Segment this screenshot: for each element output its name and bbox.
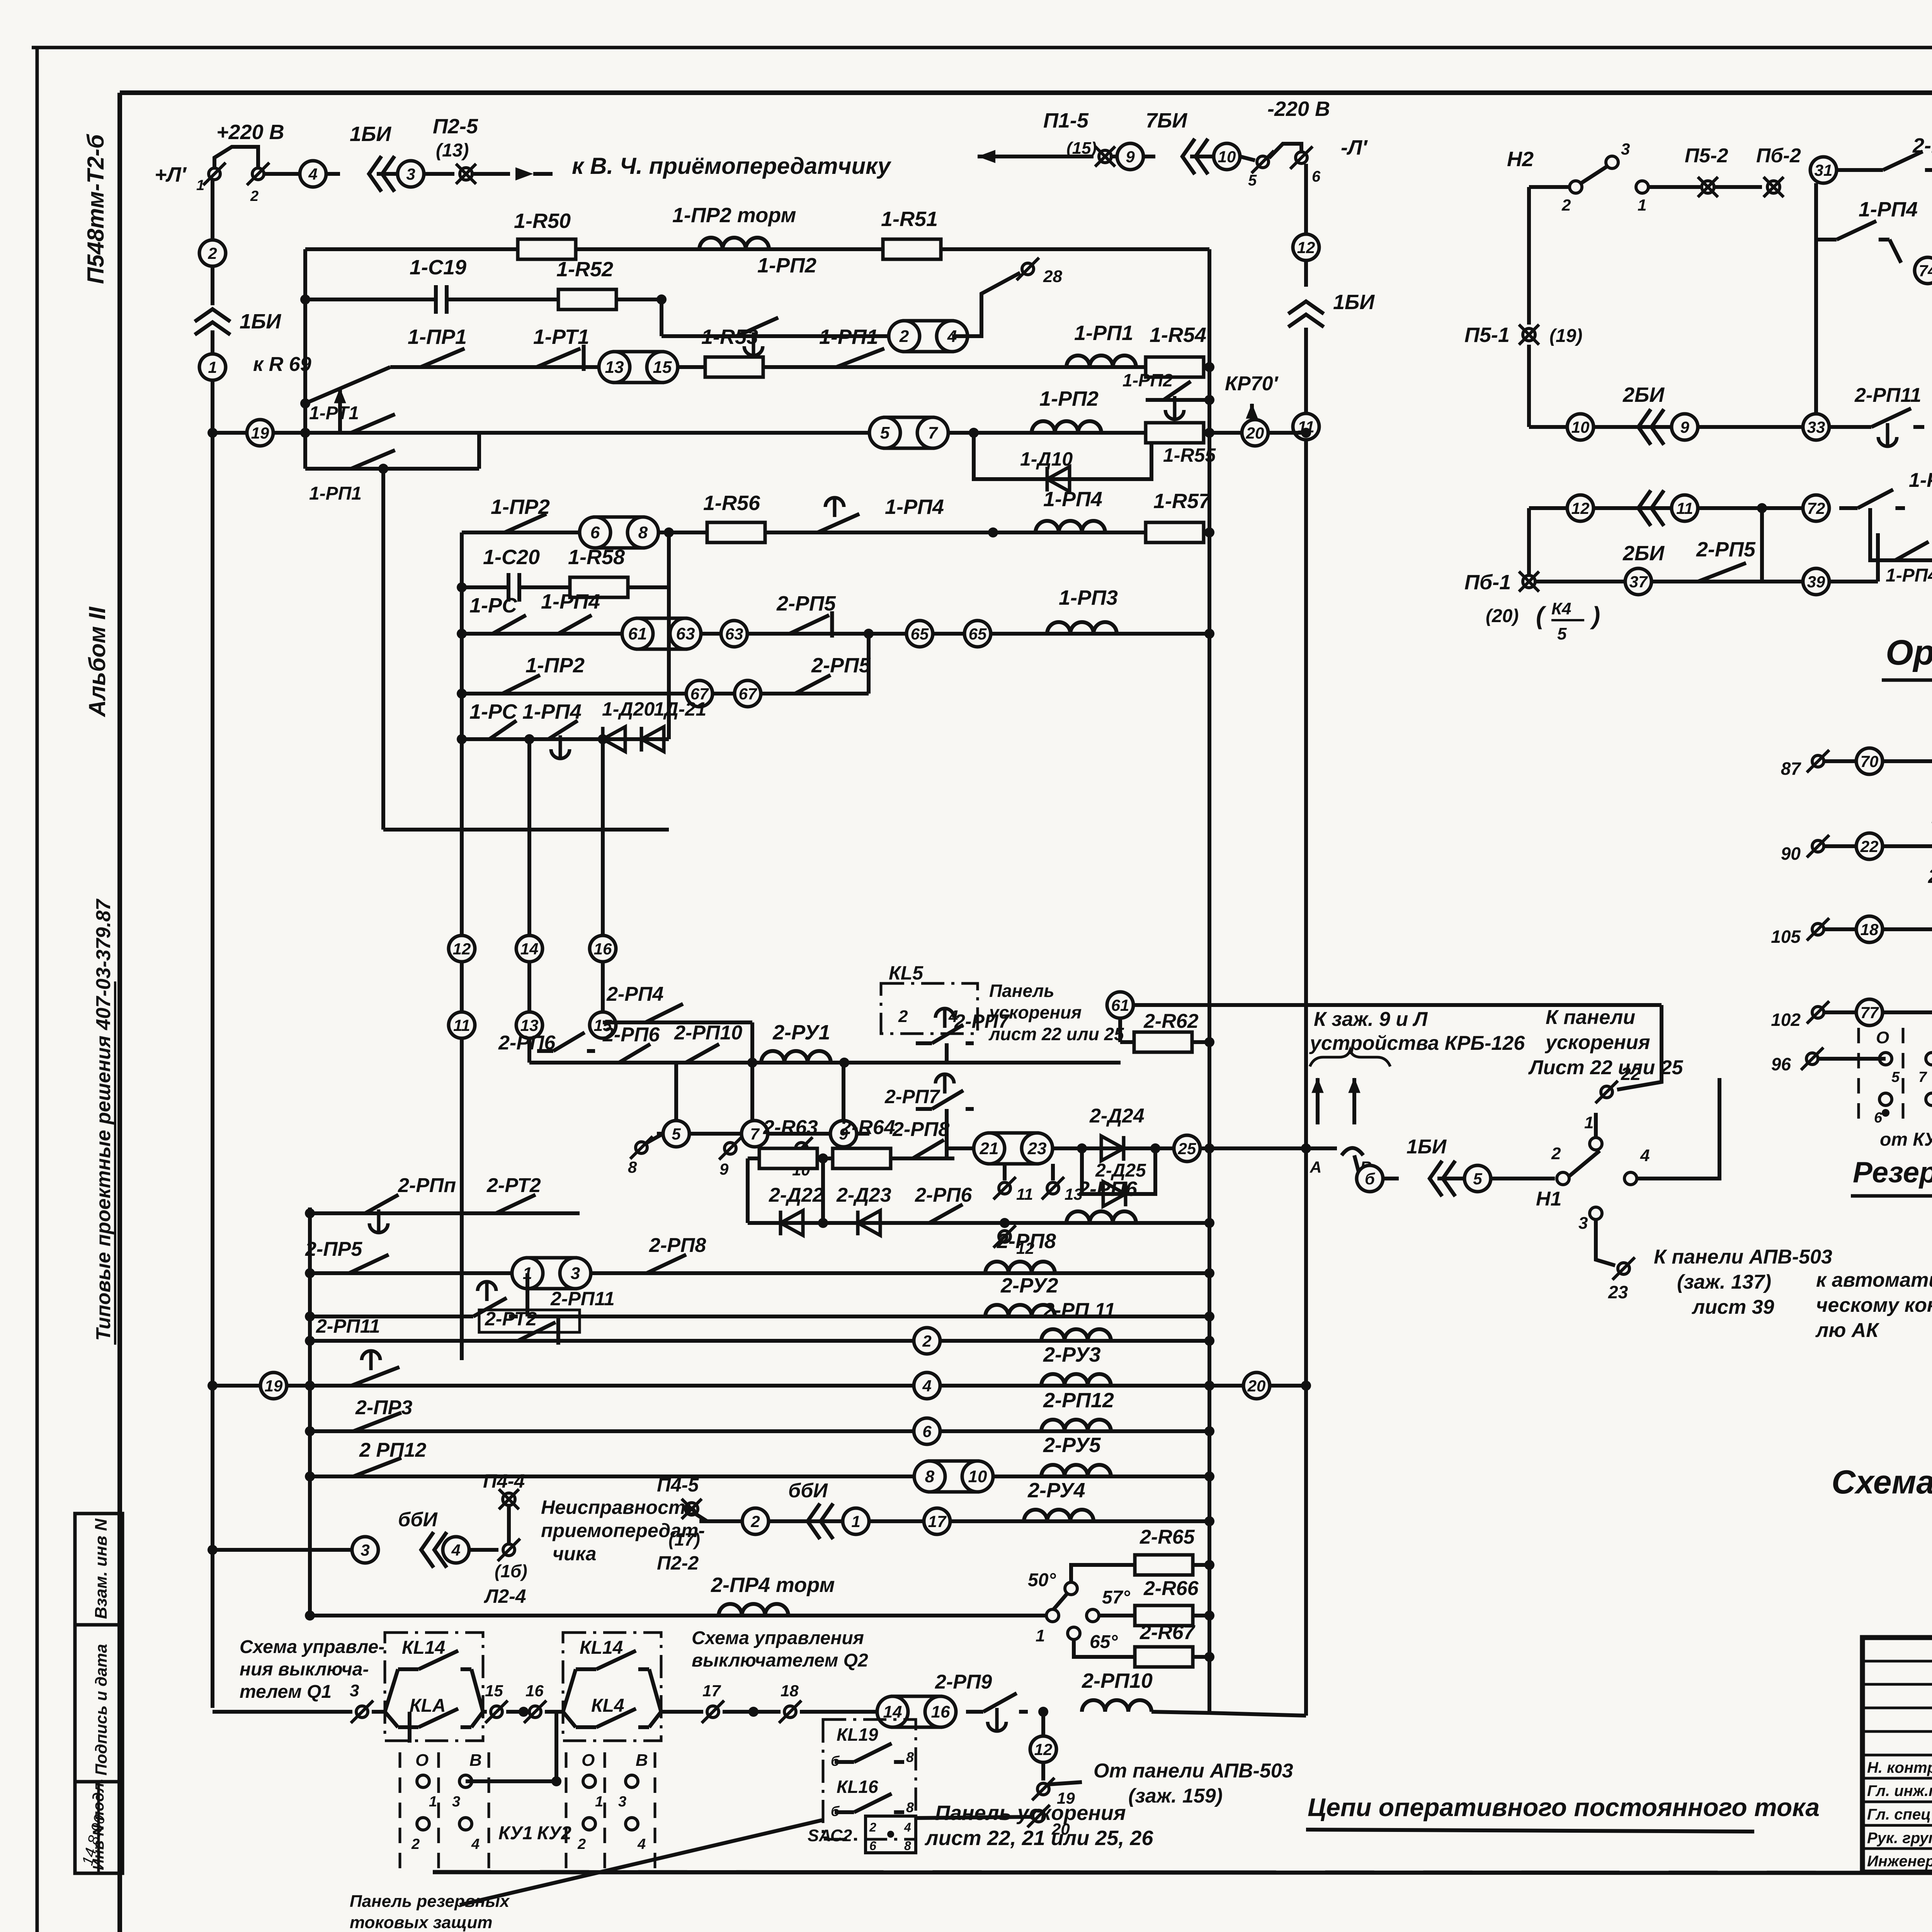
row diodes Д22 Д23 2-РП6 (748, 1221, 1209, 1225)
circles 6 8 pill (595, 517, 643, 548)
svg-text:КУ1: КУ1 (498, 1823, 533, 1844)
circles 65 65 (906, 621, 933, 647)
svg-text:2-Д24: 2-Д24 (1089, 1105, 1145, 1127)
svg-text:4: 4 (451, 1541, 460, 1559)
row 2-РП5 bottom wire (1536, 580, 1592, 583)
svg-text:лист 22 или 25: лист 22 или 25 (988, 1024, 1124, 1044)
circles 13 15 pill (614, 352, 662, 383)
capacitor 1-C20 (507, 573, 521, 602)
svg-text:от КУ1: от КУ1 (1880, 1129, 1932, 1150)
svg-text:22: 22 (1860, 837, 1879, 855)
svg-text:1-РП4: 1-РП4 (1886, 565, 1932, 586)
selector common 1 (1046, 1609, 1059, 1622)
contact 2-РП10 (668, 1061, 686, 1065)
row terminals 5 7 9 (657, 1132, 869, 1136)
svg-text:П2-5: П2-5 (433, 115, 478, 138)
resistor 1-R54 (1146, 357, 1204, 377)
circle 72 (1803, 495, 1829, 521)
chevron 7БИ (1143, 155, 1155, 158)
circle 20 (1242, 420, 1268, 446)
svg-text:12: 12 (1034, 1740, 1053, 1759)
svg-text:28: 28 (1043, 267, 1062, 286)
contact 2-РП11 anchor on row 19 (327, 1384, 351, 1388)
svg-text:Схема выполнена на листах 1÷: Схема выполнена на листах 1÷3 (1832, 1464, 1932, 1501)
diode 2-Д25 bypass (1082, 1148, 1155, 1194)
contact 1-РС row (475, 737, 489, 741)
circles 1 3 pill (527, 1258, 575, 1289)
row 67 wire (462, 692, 869, 696)
svg-text:устройства КРБ-126: устройства КРБ-126 (1309, 1032, 1525, 1054)
svg-text:2БИ: 2БИ (1622, 383, 1665, 406)
terminal 18 (784, 1706, 796, 1718)
svg-text:8: 8 (925, 1467, 935, 1486)
svg-text:2-РУ3: 2-РУ3 (1043, 1343, 1101, 1366)
svg-text:Неисправность: Неисправность (541, 1497, 697, 1518)
svg-text:К панели АПВ-503: К панели АПВ-503 (1654, 1246, 1832, 1268)
svg-text:Цепи оперативного постоянного: Цепи оперативного постоянного тока (1308, 1793, 1820, 1821)
svg-text:12: 12 (453, 940, 471, 958)
chevron 1БИ on bus E (1288, 301, 1324, 314)
svg-text:Инженер: Инженер (1867, 1853, 1932, 1870)
resistor 1-R51 (883, 239, 941, 259)
row 2БИ upper wire (1529, 425, 1803, 429)
svg-text:1-РС: 1-РС (469, 594, 517, 617)
circle 19 on row 19 (207, 428, 218, 438)
svg-text:6: 6 (869, 1839, 876, 1853)
arrow left -220V row (978, 150, 995, 163)
svg-text:(20): (20) (1486, 606, 1519, 626)
svg-text:1-Д10: 1-Д10 (1020, 448, 1073, 470)
svg-text:Панель: Панель (989, 981, 1054, 1001)
coil 2-РУ3 (1041, 1374, 1111, 1386)
svg-text:2-РП11: 2-РП11 (316, 1315, 380, 1337)
svg-text:2: 2 (411, 1836, 420, 1852)
chevron 2БИ lower (1638, 490, 1651, 526)
svg-text:63: 63 (676, 624, 695, 643)
contact 1-ПР2 (483, 531, 505, 534)
circle 17 (924, 1508, 950, 1534)
svg-text:2-ПР5: 2-ПР5 (305, 1238, 362, 1260)
svg-text:2-РП5: 2-РП5 (776, 592, 836, 615)
svg-text:1БИ: 1БИ (240, 310, 281, 333)
svg-text:1-РП4: 1-РП4 (1909, 469, 1932, 492)
svg-text:1-РП4: 1-РП4 (522, 700, 582, 723)
rail 802 (308, 1207, 312, 1611)
svg-text:8: 8 (628, 1158, 637, 1176)
svg-text:1: 1 (429, 1794, 437, 1810)
circle 2 row (914, 1328, 940, 1354)
bracket text К заж 9 и Л устройства КРБ-126 (1310, 1050, 1390, 1066)
KL5 dash-dot box (881, 983, 978, 1034)
svg-text:4: 4 (948, 1007, 958, 1026)
circles 5 7 pill (885, 417, 933, 448)
svg-text:От панели АПВ-503: От панели АПВ-503 (1094, 1760, 1293, 1782)
row 19-2 long wire (213, 1384, 1306, 1388)
bus A vertical (211, 180, 214, 240)
terminal 2 (252, 168, 264, 180)
svg-text:16: 16 (526, 1682, 544, 1700)
svg-text:2-R62: 2-R62 (1143, 1010, 1199, 1032)
svg-text:2-R63: 2-R63 (763, 1116, 818, 1139)
coil 2-ПР4 торм (719, 1604, 788, 1616)
svg-text:Л2-4: Л2-4 (484, 1585, 526, 1607)
svg-text:-Л′: -Л′ (1341, 136, 1368, 159)
svg-text:1-РП4: 1-РП4 (541, 590, 600, 613)
row 25 wire (947, 1146, 1306, 1150)
contact 1-РП2 with anchor (715, 334, 736, 338)
terminal 17 (707, 1706, 719, 1718)
outer border top line (32, 46, 1932, 49)
svg-text:13: 13 (605, 358, 624, 377)
coil 1-РП2 (1032, 421, 1101, 433)
coil 1-РП3 (1047, 622, 1117, 634)
svg-text:О: О (582, 1751, 595, 1770)
circle 1 on bus A (199, 354, 226, 380)
row 2-ПР4 торм wire (310, 1614, 1046, 1617)
contact 2-РП9 (1883, 927, 1905, 931)
row 2-РТ2 box stub and 2-РП11 coil row (310, 1339, 1209, 1343)
circle 33 (1803, 414, 1829, 440)
terminal П1-5 (1099, 150, 1111, 163)
svg-text:1: 1 (1584, 1113, 1594, 1132)
resistor 2-R67 branch (1074, 1640, 1135, 1657)
svg-text:3: 3 (571, 1264, 580, 1283)
resistor 1-R58 (570, 577, 628, 597)
svg-text:ния выключа-: ния выключа- (240, 1659, 369, 1680)
svg-text:1-РТ1: 1-РТ1 (533, 325, 589, 349)
svg-text:2-R66: 2-R66 (1143, 1577, 1199, 1600)
svg-text:1-ПР2: 1-ПР2 (491, 495, 550, 519)
inner frame left line (117, 93, 122, 1932)
contact 1-РТ1 row19 (328, 431, 351, 435)
circle 18 (1856, 916, 1883, 942)
svg-text:20: 20 (1247, 1377, 1266, 1395)
svg-text:14: 14 (520, 940, 539, 958)
wire to terminal 28 (952, 273, 1020, 336)
svg-text:3: 3 (350, 1681, 359, 1700)
terminal 28 (1022, 263, 1034, 275)
svg-text:1: 1 (196, 177, 204, 194)
contact 2-РП9 anchor (966, 1710, 983, 1714)
svg-text:50°: 50° (1028, 1570, 1056, 1590)
stamp signature grid (1862, 1660, 1932, 1663)
svg-text:18: 18 (1861, 920, 1879, 939)
circles 21 23 pill (989, 1133, 1037, 1164)
svg-text:1БИ: 1БИ (350, 122, 391, 146)
contact 1-ПР1 (398, 365, 421, 369)
row 2-РУ4 wire (699, 1519, 1209, 1523)
coil 2-РУ2 (985, 1305, 1055, 1316)
svg-text:2-R64: 2-R64 (840, 1116, 895, 1139)
margin stamp boxes (75, 1514, 122, 1625)
svg-text:(1б): (1б) (495, 1561, 527, 1581)
svg-text:1: 1 (1638, 196, 1646, 214)
svg-text:13: 13 (1065, 1185, 1083, 1203)
svg-text:к R 69: к R 69 (253, 353, 311, 376)
contact KL14 (398, 1667, 418, 1671)
terminal 22 (1601, 1086, 1612, 1098)
row РС diodes wire (462, 737, 669, 741)
row C19 wire (305, 298, 662, 301)
svg-text:23: 23 (1027, 1139, 1047, 1158)
row 2-РП12 wire (310, 1475, 1209, 1478)
svg-text:16: 16 (931, 1702, 950, 1721)
circle 5 mid (1464, 1165, 1491, 1192)
svg-text:4: 4 (1640, 1146, 1650, 1165)
row 2БИ lower wire (1529, 506, 1803, 510)
svg-text:ббИ: ббИ (788, 1480, 828, 1502)
svg-text:16: 16 (594, 940, 612, 958)
row R50 wire (305, 247, 1209, 251)
chevron ббИ (808, 1503, 820, 1539)
monitor circle 3 (398, 161, 424, 187)
fuse coil 1-ПР2 торм (699, 238, 769, 249)
svg-text:А: А (1310, 1158, 1321, 1176)
row 61-63 wire (462, 632, 1209, 636)
coil 2-РП11 (1041, 1329, 1111, 1341)
circle 63 (721, 621, 747, 647)
contact 1-РП4 mid (1839, 506, 1858, 510)
svg-text:9: 9 (719, 1160, 729, 1178)
svg-text:4: 4 (904, 1820, 911, 1834)
circles 14 13 on V2 (516, 935, 543, 962)
row C20 R58 wire (462, 585, 669, 589)
junction vertical 2248 (864, 629, 874, 639)
svg-text:96: 96 (1771, 1054, 1791, 1074)
terminal П5-2 (1702, 181, 1714, 193)
svg-text:4: 4 (637, 1836, 646, 1852)
svg-text:КLА: КLА (410, 1696, 446, 1716)
svg-text:1-РП2: 1-РП2 (757, 254, 816, 277)
svg-text:Панель ускорения: Панель ускорения (935, 1801, 1126, 1825)
svg-text:21: 21 (980, 1139, 999, 1158)
svg-text:1-РП4: 1-РП4 (885, 495, 944, 519)
svg-text:к В. Ч. приёмопередатчику: к В. Ч. приёмопередатчику (572, 153, 891, 179)
svg-text:1-R53: 1-R53 (701, 325, 758, 349)
svg-text:П4-4: П4-4 (483, 1470, 525, 1492)
svg-text:П2-2: П2-2 (657, 1552, 699, 1574)
svg-text:1-R51: 1-R51 (881, 207, 938, 231)
circle 11 on bus E (1293, 413, 1319, 440)
monitor circle 4 (300, 161, 326, 187)
svg-text:3: 3 (1621, 140, 1630, 158)
contact 1-РП1 (811, 365, 836, 369)
contact 1-РП1 (1883, 1010, 1905, 1014)
circles 61 63 pill (638, 618, 685, 649)
svg-text:О: О (415, 1751, 429, 1770)
svg-text:33: 33 (1807, 418, 1825, 436)
svg-text:1-Д20: 1-Д20 (602, 698, 655, 720)
svg-text:Н2: Н2 (1507, 148, 1534, 171)
junction (988, 527, 998, 537)
svg-text:1-РП3: 1-РП3 (1059, 586, 1118, 609)
svg-text:2: 2 (250, 188, 259, 204)
svg-text:2: 2 (207, 244, 217, 262)
svg-text:2-РП10: 2-РП10 (1082, 1669, 1153, 1692)
resistor 1-R56 (707, 522, 765, 543)
terminal 19 от панели (1037, 1783, 1049, 1795)
terminal 20 (1033, 1810, 1044, 1822)
diode 1-Д20 (603, 727, 625, 752)
circles 16 15 on V3 (590, 935, 616, 962)
KL14 KL4 dash-dot box 2 (563, 1633, 661, 1741)
svg-text:Схема управления: Схема управления (692, 1628, 864, 1648)
svg-text:2-РП7: 2-РП7 (884, 1086, 940, 1107)
svg-text:1БИ: 1БИ (1406, 1136, 1447, 1158)
svg-text:1-R54: 1-R54 (1150, 323, 1206, 347)
svg-text:10: 10 (968, 1467, 987, 1486)
terminal П4-5 (685, 1503, 698, 1515)
svg-text:25: 25 (1178, 1139, 1196, 1158)
wire +220V jog (214, 147, 258, 168)
circle 19-2 (260, 1372, 287, 1399)
terminal П2-5 (460, 168, 472, 180)
contact 2-РП5 bottom (1673, 580, 1698, 583)
circle 11 (1672, 495, 1698, 521)
svg-text:Гл. спец: Гл. спец (1867, 1806, 1931, 1823)
svg-text:1-ПР2 торм: 1-ПР2 торм (672, 204, 796, 227)
circles 2 4 pill (904, 321, 952, 352)
circle 4 on row 19 (914, 1372, 940, 1399)
selector terminal 65 (1068, 1627, 1080, 1639)
svg-text:6: 6 (590, 523, 600, 542)
КУ1 cluster (408, 1712, 412, 1743)
svg-text:КL14: КL14 (580, 1638, 623, 1658)
svg-text:1-РП1: 1-РП1 (1074, 321, 1133, 345)
contact 2-РП5 row67 (777, 692, 795, 696)
svg-text:19: 19 (265, 1377, 283, 1395)
svg-text:б: б (831, 1753, 840, 1769)
svg-text:7: 7 (750, 1125, 760, 1143)
coil 2-РУ5 (1041, 1465, 1111, 1476)
svg-text:39: 39 (1807, 573, 1825, 591)
bus B2 vertical (460, 532, 464, 1360)
svg-text:Н. контр.: Н. контр. (1867, 1759, 1932, 1776)
circle 61 R62 branch (1107, 992, 1133, 1018)
terminal 4 Н1 (1624, 1172, 1637, 1185)
svg-text:3: 3 (452, 1794, 460, 1810)
svg-text:105: 105 (1771, 927, 1801, 947)
svg-text:37: 37 (1629, 573, 1648, 591)
svg-text:К заж. 9 и Л: К заж. 9 и Л (1314, 1008, 1428, 1031)
svg-text:10: 10 (1218, 148, 1236, 166)
contact 2-РП10 (1883, 844, 1905, 848)
svg-text:лю АК: лю АК (1815, 1319, 1879, 1342)
svg-text:11: 11 (1676, 499, 1693, 517)
svg-text:Гл. инж.пр.: Гл. инж.пр. (1867, 1782, 1932, 1799)
svg-text:2-РУ4: 2-РУ4 (1027, 1479, 1085, 1502)
svg-text:8: 8 (904, 1839, 911, 1853)
svg-text:4: 4 (922, 1377, 931, 1395)
svg-text:61: 61 (628, 624, 647, 643)
terminal 13 (1051, 1164, 1055, 1180)
terminal 5 (1257, 156, 1269, 168)
monitor circle 10 (1190, 155, 1214, 158)
vertical link x1731 (667, 532, 671, 587)
svg-text:+220 В: +220 В (216, 121, 284, 144)
svg-text:О: О (1876, 1028, 1889, 1047)
main stamp outer box (1862, 1638, 1932, 1872)
svg-text:3: 3 (361, 1541, 369, 1559)
resistor 1-R57 (1146, 522, 1204, 543)
row 2-РПп 2-РТ2 stub (310, 1211, 580, 1215)
svg-text:П548тм-Т2-б: П548тм-Т2-б (83, 134, 109, 284)
svg-text:2-Д22: 2-Д22 (769, 1184, 824, 1206)
svg-text:2-РП6: 2-РП6 (602, 1024, 660, 1046)
svg-text:74: 74 (1919, 262, 1932, 280)
svg-text:2-РП 11: 2-РП 11 (1043, 1299, 1116, 1321)
bus E vertical (1304, 164, 1308, 234)
svg-text:(15): (15) (1066, 139, 1097, 158)
svg-text:1-РТ1: 1-РТ1 (309, 403, 359, 423)
svg-text:Панель резервных: Панель резервных (350, 1892, 510, 1911)
bus C vertical (381, 469, 385, 830)
svg-text:2-R65: 2-R65 (1139, 1526, 1195, 1548)
vertical link x1712 (660, 299, 663, 336)
svg-text:1-R57: 1-R57 (1153, 490, 1211, 513)
diode 2-Д24 (1101, 1136, 1124, 1161)
coil 2-РП6 (1066, 1211, 1136, 1223)
svg-text:ускорения: ускорения (988, 1002, 1082, 1022)
circle 12 (1567, 495, 1594, 521)
svg-text:87: 87 (1781, 759, 1802, 779)
circle 12 on bus E (1293, 234, 1319, 260)
svg-text:П4-5: П4-5 (657, 1474, 699, 1496)
svg-text:Пб-1: Пб-1 (1464, 571, 1511, 594)
row РП2 contact wire (662, 334, 889, 338)
wire (377, 172, 398, 176)
contact 2-РП12 (328, 1475, 353, 1478)
svg-text:1-РП2: 1-РП2 (1122, 370, 1173, 390)
svg-text:выключателем Q2: выключателем Q2 (692, 1650, 868, 1671)
circle 22 (1856, 833, 1883, 859)
svg-text:72: 72 (1807, 499, 1825, 517)
KL19 KL16 dash-dot box (823, 1719, 916, 1839)
vertical link П4-4 (507, 1506, 511, 1550)
svg-text:2-РП8: 2-РП8 (649, 1234, 706, 1257)
svg-text:3: 3 (618, 1794, 626, 1810)
svg-text:67: 67 (739, 685, 757, 703)
svg-text:2-РП10: 2-РП10 (674, 1022, 742, 1044)
svg-text:2: 2 (869, 1820, 876, 1834)
vertical link x1240 (477, 433, 481, 469)
svg-text:ческому контро-: ческому контро- (1816, 1294, 1932, 1316)
svg-text:2: 2 (899, 327, 909, 346)
svg-text:1-ПР2: 1-ПР2 (526, 654, 585, 677)
contact 2-РП8 (896, 1156, 913, 1160)
contact 1-РП1 (1883, 759, 1905, 763)
contact 1-РП4 top (1814, 240, 1818, 414)
КУ feed row wire (213, 1710, 352, 1714)
svg-text:2-РУ1: 2-РУ1 (772, 1021, 830, 1044)
switch Н1 (1557, 1172, 1569, 1185)
rail H2 vertical (1527, 187, 1531, 325)
svg-text:КL4: КL4 (591, 1696, 624, 1716)
wire H1-1 stub (1594, 1113, 1598, 1137)
contact 1-РП2 anchor upper (1146, 398, 1209, 402)
svg-text:65: 65 (911, 625, 929, 643)
svg-text:1-С20: 1-С20 (483, 546, 540, 569)
svg-text:2-РП6: 2-РП6 (915, 1184, 972, 1206)
svg-text:КL14: КL14 (402, 1638, 445, 1658)
wire busC corner (383, 828, 669, 832)
svg-text:8: 8 (638, 523, 648, 542)
svg-text:(заж. 137): (заж. 137) (1677, 1271, 1771, 1293)
svg-text:КL19: КL19 (837, 1725, 878, 1745)
svg-text:2-РП8: 2-РП8 (997, 1230, 1056, 1253)
circle 25 (1174, 1135, 1200, 1162)
svg-text:2-РП12: 2-РП12 (1043, 1389, 1114, 1412)
